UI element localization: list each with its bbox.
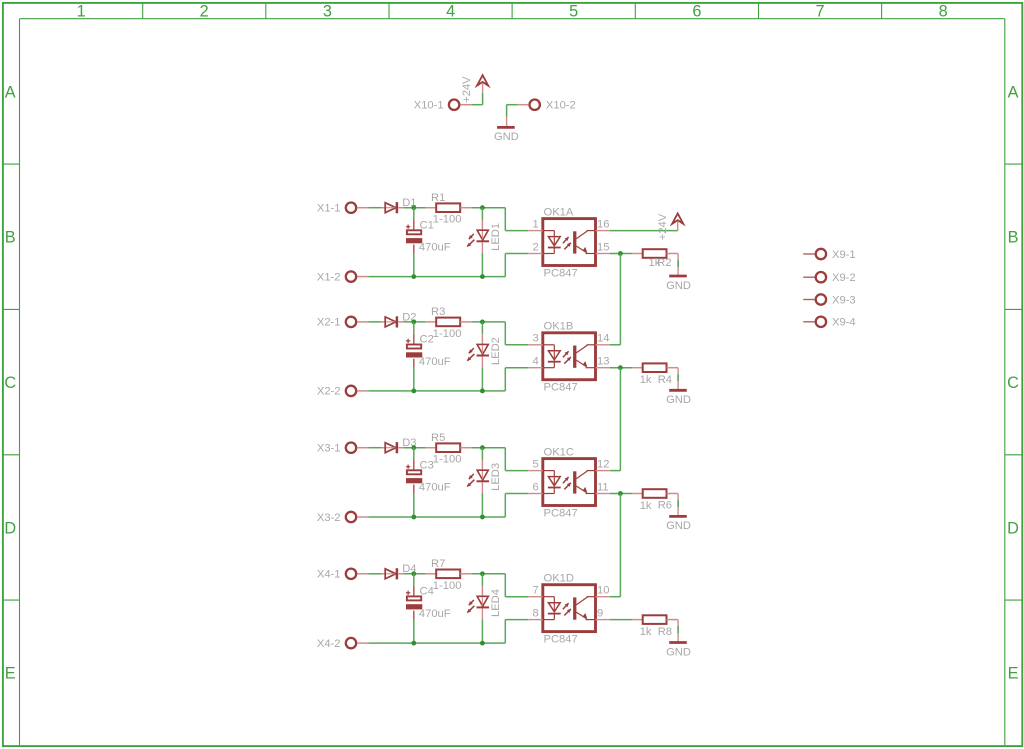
svg-text:OK1C: OK1C xyxy=(544,446,574,458)
capacitor C2 xyxy=(406,322,422,391)
LED LED2 light arrows xyxy=(469,348,474,353)
svg-text:OK1B: OK1B xyxy=(544,321,574,333)
wire xyxy=(505,470,528,472)
ground GND xyxy=(669,641,687,644)
resistor R4 xyxy=(632,363,678,372)
junction xyxy=(480,320,485,325)
connector pin X1-2 xyxy=(346,271,368,281)
resistor R3 xyxy=(426,318,472,327)
svg-text:R2: R2 xyxy=(657,257,671,269)
svg-text:3: 3 xyxy=(532,333,538,345)
svg-text:10: 10 xyxy=(597,585,609,597)
svg-text:5: 5 xyxy=(569,2,578,20)
wire xyxy=(610,344,620,346)
connector pin X3-1 xyxy=(346,443,368,453)
svg-text:A: A xyxy=(1008,83,1019,101)
svg-text:GND: GND xyxy=(666,520,691,532)
svg-text:OK1A: OK1A xyxy=(544,206,574,218)
svg-text:6: 6 xyxy=(532,481,538,493)
svg-text:GND: GND xyxy=(666,394,691,406)
connector pin X9-1 xyxy=(803,249,826,259)
resistor R5 xyxy=(426,443,472,452)
wire xyxy=(505,253,528,255)
svg-text:R1: R1 xyxy=(431,192,445,204)
wire xyxy=(610,493,632,495)
svg-text:A: A xyxy=(5,83,16,101)
wire xyxy=(505,230,528,232)
junction xyxy=(411,274,416,279)
wire xyxy=(504,494,506,518)
svg-text:1k: 1k xyxy=(640,374,652,386)
resistor R7 xyxy=(426,570,472,579)
svg-text:2: 2 xyxy=(532,241,538,253)
wire xyxy=(368,642,505,644)
LED LED1 xyxy=(477,208,490,277)
svg-text:1-100: 1-100 xyxy=(433,580,462,592)
svg-text:PC847: PC847 xyxy=(544,382,578,394)
wire xyxy=(471,321,505,323)
diode D2 xyxy=(381,316,404,327)
junction xyxy=(411,641,416,646)
svg-text:11: 11 xyxy=(597,481,609,493)
svg-text:470uF: 470uF xyxy=(419,356,451,368)
wire xyxy=(505,367,528,369)
wire xyxy=(471,104,482,106)
svg-text:4: 4 xyxy=(532,356,538,368)
wire xyxy=(504,620,506,644)
wire xyxy=(610,596,620,598)
svg-text:12: 12 xyxy=(597,459,609,471)
wire xyxy=(504,208,506,231)
wire xyxy=(505,344,528,346)
svg-text:4: 4 xyxy=(446,2,455,20)
connector pin X2-2 xyxy=(346,386,368,396)
connector pin X4-1 xyxy=(346,569,368,579)
diode D4 xyxy=(381,568,404,579)
connector pin X3-2 xyxy=(346,512,368,522)
wire xyxy=(677,368,679,390)
resistor R8 xyxy=(632,615,678,624)
wire xyxy=(619,494,621,597)
diode D1 xyxy=(381,202,404,213)
svg-text:7: 7 xyxy=(815,2,824,20)
LED LED4 light arrows xyxy=(469,600,474,605)
junction xyxy=(480,205,485,210)
wire xyxy=(504,322,506,345)
wire xyxy=(471,207,505,209)
svg-text:7: 7 xyxy=(532,585,538,597)
wire xyxy=(610,367,632,369)
wire xyxy=(619,254,621,345)
connector pin X2-1 xyxy=(346,317,368,327)
wire xyxy=(610,230,678,232)
wire xyxy=(471,573,505,575)
svg-text:GND: GND xyxy=(666,280,691,292)
svg-text:C3: C3 xyxy=(420,460,434,472)
svg-text:PC847: PC847 xyxy=(544,633,578,645)
svg-text:+24V: +24V xyxy=(657,213,669,240)
capacitor C4 xyxy=(406,574,422,643)
junction xyxy=(411,320,416,325)
diode D3 xyxy=(381,442,404,453)
optocoupler OK1C xyxy=(528,459,610,506)
svg-text:14: 14 xyxy=(597,333,609,345)
wire xyxy=(404,207,426,209)
svg-text:GND: GND xyxy=(666,646,691,658)
junction xyxy=(411,205,416,210)
svg-text:D: D xyxy=(4,519,16,537)
connector pin X9-4 xyxy=(803,317,826,327)
svg-text:470uF: 470uF xyxy=(419,242,451,254)
svg-text:R6: R6 xyxy=(658,500,672,512)
svg-text:R7: R7 xyxy=(431,558,445,570)
wire xyxy=(504,368,506,391)
junction xyxy=(480,515,485,520)
junction xyxy=(411,515,416,520)
wire xyxy=(368,573,381,575)
svg-text:B: B xyxy=(5,229,16,247)
junction xyxy=(411,389,416,394)
svg-text:C1: C1 xyxy=(420,220,434,232)
svg-text:E: E xyxy=(1008,665,1019,683)
junction xyxy=(618,491,623,496)
wire xyxy=(619,368,621,471)
svg-text:1-100: 1-100 xyxy=(433,214,462,226)
svg-text:6: 6 xyxy=(692,2,701,20)
wire xyxy=(505,619,528,621)
resistor R6 xyxy=(632,489,678,498)
svg-text:X9-2: X9-2 xyxy=(832,272,856,284)
svg-text:PC847: PC847 xyxy=(544,267,578,279)
svg-text:E: E xyxy=(5,665,16,683)
wire xyxy=(368,207,381,209)
svg-text:8: 8 xyxy=(532,608,538,620)
resistor R2 xyxy=(632,249,678,258)
junction xyxy=(480,571,485,576)
svg-text:OK1D: OK1D xyxy=(544,573,574,585)
svg-text:LED4: LED4 xyxy=(490,589,502,617)
svg-text:+24V: +24V xyxy=(461,76,473,103)
svg-text:R4: R4 xyxy=(658,374,672,386)
wire xyxy=(504,448,506,471)
svg-text:R5: R5 xyxy=(431,432,445,444)
svg-text:LED3: LED3 xyxy=(490,463,502,491)
supply +24V symbol xyxy=(672,213,683,231)
wire xyxy=(368,276,505,278)
connector pin X9-2 xyxy=(803,272,826,282)
svg-text:9: 9 xyxy=(597,608,603,620)
svg-text:LED1: LED1 xyxy=(490,223,502,251)
svg-text:16: 16 xyxy=(597,219,609,231)
svg-text:C4: C4 xyxy=(420,586,434,598)
svg-text:X4-2: X4-2 xyxy=(317,638,341,650)
optocoupler OK1B xyxy=(528,333,610,380)
ground GND xyxy=(669,515,687,518)
svg-text:D: D xyxy=(1007,519,1019,537)
svg-text:1: 1 xyxy=(532,219,538,231)
wire xyxy=(368,390,505,392)
wire xyxy=(404,321,426,323)
svg-text:X9-1: X9-1 xyxy=(832,249,856,261)
svg-text:X10-1: X10-1 xyxy=(414,100,444,112)
junction xyxy=(480,641,485,646)
svg-text:X1-1: X1-1 xyxy=(317,203,341,215)
svg-text:1-100: 1-100 xyxy=(433,454,462,466)
supply +24V symbol xyxy=(477,75,488,93)
wire xyxy=(482,93,484,105)
svg-text:X10-2: X10-2 xyxy=(546,100,576,112)
wire xyxy=(368,321,381,323)
svg-text:X1-2: X1-2 xyxy=(317,271,341,283)
svg-text:X2-2: X2-2 xyxy=(317,386,341,398)
svg-text:C: C xyxy=(4,374,16,392)
wire xyxy=(610,619,632,621)
svg-text:5: 5 xyxy=(532,459,538,471)
svg-text:X2-1: X2-1 xyxy=(317,317,341,329)
svg-text:X9-3: X9-3 xyxy=(832,294,856,306)
wire xyxy=(677,254,679,276)
svg-text:B: B xyxy=(1008,229,1019,247)
LED LED3 light arrows xyxy=(469,474,474,479)
svg-text:8: 8 xyxy=(939,2,948,20)
wire xyxy=(610,470,620,472)
connector pin X10-2 xyxy=(517,100,540,110)
svg-text:C2: C2 xyxy=(420,334,434,346)
wire xyxy=(505,493,528,495)
connector pin X1-1 xyxy=(346,203,368,213)
junction xyxy=(480,445,485,450)
ground GND xyxy=(497,126,515,129)
svg-text:LED2: LED2 xyxy=(490,337,502,365)
wire xyxy=(504,254,506,277)
svg-text:470uF: 470uF xyxy=(419,482,451,494)
optocoupler OK1D xyxy=(528,585,610,632)
svg-text:X3-2: X3-2 xyxy=(317,512,341,524)
optocoupler OK1D light arrows xyxy=(563,603,569,609)
svg-text:X3-1: X3-1 xyxy=(317,443,341,455)
LED LED4 xyxy=(477,574,490,643)
svg-text:1: 1 xyxy=(77,2,86,20)
LED LED1 light arrows xyxy=(469,234,474,239)
ground GND xyxy=(669,275,687,278)
wire xyxy=(505,596,528,598)
connector pin X4-2 xyxy=(346,638,368,648)
resistor R1 xyxy=(426,203,472,212)
junction xyxy=(411,445,416,450)
svg-text:X9-4: X9-4 xyxy=(832,317,856,329)
junction xyxy=(618,365,623,370)
svg-text:C: C xyxy=(1007,374,1019,392)
optocoupler OK1B light arrows xyxy=(563,351,569,357)
wire xyxy=(471,447,505,449)
connector pin X10-1 xyxy=(449,100,471,110)
optocoupler OK1A light arrows xyxy=(563,237,569,243)
LED LED2 xyxy=(477,322,490,391)
junction xyxy=(618,251,623,256)
wire xyxy=(504,574,506,597)
svg-text:PC847: PC847 xyxy=(544,507,578,519)
svg-text:470uF: 470uF xyxy=(419,608,451,620)
LED LED3 xyxy=(477,448,490,517)
svg-text:1-100: 1-100 xyxy=(433,328,462,340)
wire xyxy=(404,573,426,575)
wire xyxy=(368,447,381,449)
junction xyxy=(480,274,485,279)
wire xyxy=(677,494,679,517)
optocoupler OK1C light arrows xyxy=(563,477,569,483)
wire xyxy=(404,447,426,449)
svg-text:15: 15 xyxy=(597,241,609,253)
junction xyxy=(411,571,416,576)
svg-text:R3: R3 xyxy=(431,306,445,318)
svg-text:3: 3 xyxy=(323,2,332,20)
optocoupler OK1A xyxy=(528,219,610,266)
svg-text:GND: GND xyxy=(494,131,519,143)
svg-text:R8: R8 xyxy=(658,626,672,638)
svg-text:1k: 1k xyxy=(640,500,652,512)
svg-text:13: 13 xyxy=(597,356,609,368)
capacitor C3 xyxy=(406,448,422,517)
wire xyxy=(677,620,679,643)
svg-text:1k: 1k xyxy=(640,626,652,638)
wire xyxy=(507,104,518,106)
wire xyxy=(610,253,632,255)
ground GND xyxy=(669,389,687,392)
wire xyxy=(368,516,505,518)
svg-text:X4-1: X4-1 xyxy=(317,569,341,581)
svg-text:2: 2 xyxy=(200,2,209,20)
junction xyxy=(480,389,485,394)
wire xyxy=(506,105,508,117)
connector pin X9-3 xyxy=(803,294,826,304)
capacitor C1 xyxy=(406,208,422,277)
wire xyxy=(506,117,508,127)
